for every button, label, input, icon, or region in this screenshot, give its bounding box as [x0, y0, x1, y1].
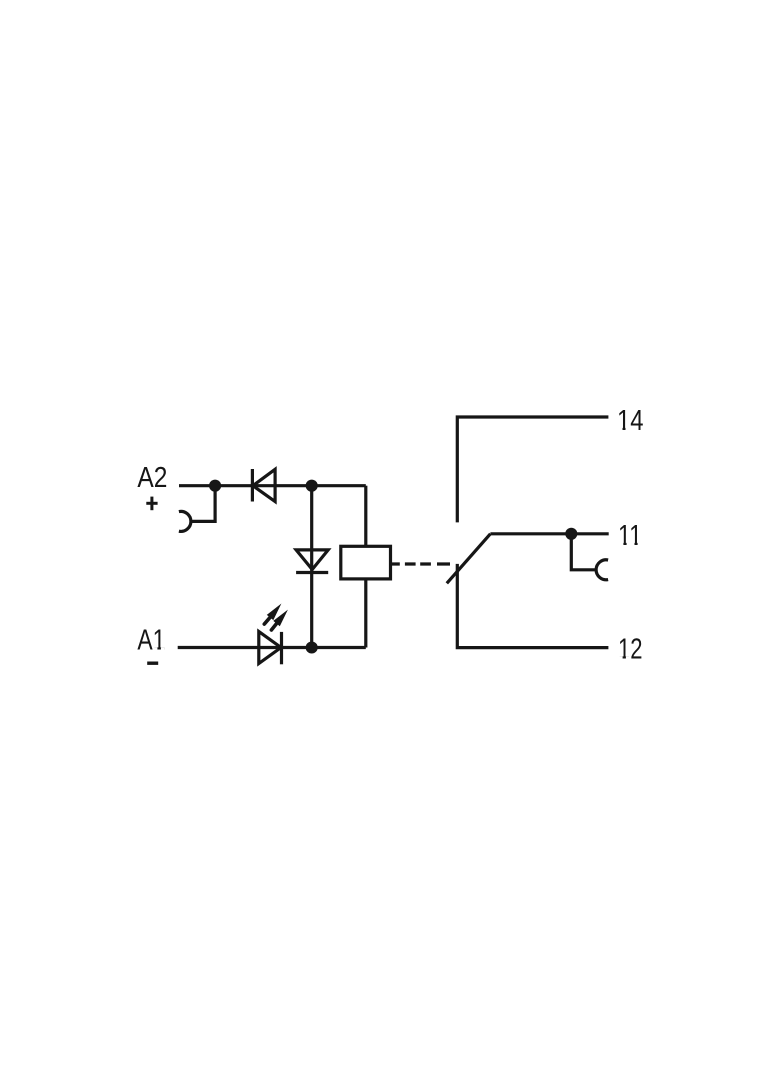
LED emission arrow 1	[264, 604, 281, 625]
junction dot coil top node	[306, 480, 318, 492]
svg-text:A2: A2	[137, 462, 167, 494]
suppressor diode V2	[296, 550, 328, 573]
wire A1 horizontal	[178, 646, 366, 649]
LED V3 indicator	[259, 632, 282, 665]
relay coil K1	[341, 546, 391, 579]
svg-text:12: 12	[618, 634, 643, 666]
svg-text:11: 11	[618, 520, 642, 552]
polarity mark +	[146, 497, 157, 511]
junction dot at 11 clamp tap	[565, 528, 577, 540]
wire freewheel diode branch	[310, 486, 313, 648]
svg-text:A1: A1	[137, 625, 165, 657]
terminal label 11	[618, 520, 642, 552]
diode V1 reverse-polarity protection	[252, 469, 275, 502]
wire contact 11 common	[490, 532, 608, 535]
terminal label A1	[137, 625, 165, 657]
LED emission arrow 2	[271, 610, 288, 630]
wire contact 12	[457, 564, 608, 648]
terminal label 14	[617, 405, 644, 437]
clamp contact symbol at 11	[571, 534, 608, 580]
svg-text:14: 14	[617, 405, 644, 437]
wire coil bottom to A1	[364, 579, 367, 648]
clamp contact symbol at A2	[179, 486, 215, 532]
switch arm changeover contact	[447, 534, 491, 584]
polarity mark minus	[147, 662, 158, 665]
wire from A2 down to coil top	[364, 486, 367, 547]
wire A2 horizontal	[179, 484, 366, 487]
wire contact 14	[457, 417, 608, 522]
junction dot A1 node	[306, 641, 318, 653]
terminal label 12	[618, 634, 643, 666]
junction dot at A2 clamp tap	[209, 480, 221, 492]
mechanical link dashed	[390, 562, 450, 565]
